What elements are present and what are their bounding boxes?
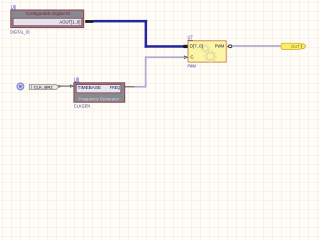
svg-text:DIGITAL_IO: DIGITAL_IO bbox=[10, 29, 30, 34]
svg-text:D[7..0]: D[7..0] bbox=[190, 44, 203, 49]
reference designator U8 bbox=[74, 77, 80, 83]
bus terminal wedge at U7 D[7..0] input bbox=[183, 45, 187, 48]
pin name AOUT[1..0] on U6 bbox=[59, 19, 80, 25]
output terminal symbol at U7 pwm output bbox=[227, 45, 232, 48]
output pin name OUT bbox=[291, 44, 300, 49]
svg-text:AOUT[1..0]: AOUT[1..0] bbox=[59, 19, 80, 25]
gray stub wire from U8 FREQ output bbox=[125, 86, 134, 87]
reference designator U6 bbox=[11, 5, 16, 11]
instance name PWM bbox=[188, 63, 196, 68]
input terminal arrow at U7 C input bbox=[184, 56, 187, 59]
output pin OUT body bbox=[281, 43, 306, 49]
svg-text:U7: U7 bbox=[188, 36, 193, 42]
instance name CLKGEN bbox=[74, 103, 91, 108]
pin name PWM output on U7 bbox=[215, 44, 225, 49]
svg-text:OUT: OUT bbox=[291, 44, 300, 49]
gears watermark in U7 bbox=[202, 45, 216, 62]
open connector dot at CLK_BRZ tag tip bbox=[58, 85, 60, 87]
wire from U7 pwm output to OUT pin bbox=[232, 45, 280, 47]
svg-text:TIMEBASE: TIMEBASE bbox=[78, 85, 102, 90]
bus wire from U6 to U7 D input (L-shape) bbox=[93, 20, 183, 48]
bus terminal stub at U6 right edge bbox=[85, 20, 93, 23]
net tag CLK_BRZ body bbox=[29, 85, 58, 90]
svg-text:CLK_BRZ: CLK_BRZ bbox=[34, 86, 54, 90]
wire from CLK_BRZ tag to U8 input bbox=[60, 86, 71, 87]
pin name C on U7 bbox=[190, 54, 194, 59]
component U8 footer text Frequency Generator bbox=[79, 97, 120, 102]
component U7 PWM body bbox=[188, 41, 226, 62]
pin name D[7..0] on U7 bbox=[190, 44, 203, 49]
svg-text:U6: U6 bbox=[11, 5, 16, 11]
svg-text:Configurable Digital IO: Configurable Digital IO bbox=[26, 11, 71, 16]
svg-text:CLKGEN: CLKGEN bbox=[74, 103, 91, 108]
clock wire from U8 FREQ output to U7 C input bbox=[134, 56, 184, 87]
net tag name CLK_BRZ bbox=[34, 86, 54, 90]
instance name DIGITAL_IO bbox=[10, 29, 30, 34]
pin name TIMEBASE on U8 bbox=[78, 85, 102, 90]
svg-text:PWM: PWM bbox=[188, 63, 196, 68]
component U8 Frequency Generator (CLKGEN) outer body bbox=[74, 83, 125, 102]
svg-text:U8: U8 bbox=[74, 77, 79, 83]
component U6 Configurable Digital IO (DIGITAL_IO) outer body bbox=[11, 10, 84, 28]
input terminal arrow at U8 timebase input bbox=[70, 85, 73, 87]
reference designator U7 bbox=[187, 36, 193, 42]
sheet connector circle icon bbox=[17, 83, 24, 90]
component U6 header text bbox=[26, 11, 71, 16]
pin name FREQ on U8 bbox=[110, 85, 121, 90]
svg-text:FREQ: FREQ bbox=[110, 85, 121, 90]
svg-text:Frequency Generator: Frequency Generator bbox=[79, 97, 120, 102]
svg-text:PWM: PWM bbox=[215, 44, 225, 49]
